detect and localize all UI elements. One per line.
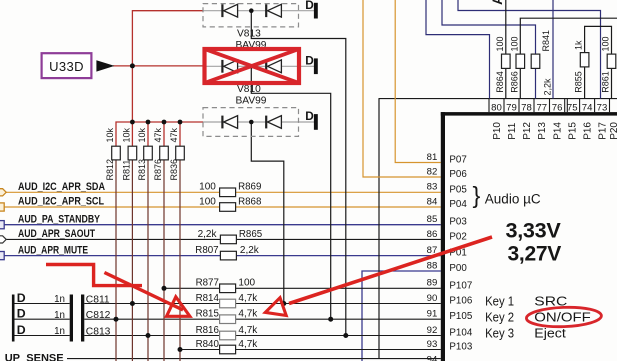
resistor R868 100 (series in SCL) <box>199 196 262 211</box>
svg-text:AUD_APR_MUTE: AUD_APR_MUTE <box>18 244 88 256</box>
resistor R877 100 (series row 89) <box>196 278 256 293</box>
svg-text:UP_SENSE: UP_SENSE <box>5 353 64 361</box>
svg-text:10k: 10k <box>121 127 131 142</box>
wire red U33D output <box>113 65 203 67</box>
resistor R855 1k (top, to pin 74) <box>574 40 589 93</box>
resistor R813 10k (vertical) <box>137 127 152 180</box>
svg-text:83: 83 <box>427 182 438 193</box>
ground/net rail D for capacitors <box>12 295 15 342</box>
svg-text:100: 100 <box>199 196 216 207</box>
node V810 tap/row91 <box>328 317 333 322</box>
svg-text:D: D <box>305 109 314 123</box>
svg-text:2,2k: 2,2k <box>542 78 552 96</box>
node U33D/red riser junction <box>130 63 135 68</box>
svg-text:R861: R861 <box>601 71 611 93</box>
wire row 90 P106 Key1 (from C811 to pin 90) <box>14 303 441 305</box>
red annotation arrowhead 2 (open, at R815) <box>265 298 286 316</box>
svg-text:1k: 1k <box>574 40 584 50</box>
wire pin 88 net (blue, corner down at x362 to bottom edge) <box>362 271 441 361</box>
svg-text:R868: R868 <box>238 196 262 207</box>
red annotation step arrow (left) <box>46 265 142 286</box>
resistor R841 2,2k (top, to pin 77) <box>531 30 552 96</box>
wire R866 top via y18.2 to right edge and bottom to pin 78 <box>520 18 617 98</box>
svg-text:V810: V810 <box>237 84 261 95</box>
resistor R807 2,2k (series in MUTE) <box>195 245 260 260</box>
svg-text:1n: 1n <box>54 310 65 321</box>
svg-text:Key 3: Key 3 <box>485 326 514 341</box>
svg-text:D: D <box>305 0 314 12</box>
resistor R840 4,7k (series row 93) <box>196 339 259 354</box>
red annotation arrow shaft 1 <box>104 273 183 311</box>
svg-text:P05: P05 <box>449 184 467 195</box>
port tag AUD_I2C_APR_SCL <box>0 203 4 211</box>
svg-text:93: 93 <box>427 339 438 350</box>
red annotation arrowhead 1 (open, at R815) <box>167 297 190 317</box>
svg-text:U33D: U33D <box>49 59 84 74</box>
node R813/row92 <box>146 333 151 338</box>
node V811 tap/row90 <box>281 301 286 306</box>
wire V810 center tap to row 91 (pin 91) <box>251 66 330 319</box>
wire long horizontal to pin 75 (y98.6 above pin row) <box>379 99 617 112</box>
wire row 93 P103 (from R836 tap to pin 93) <box>180 349 441 351</box>
port tag AUD_APR_MUTE <box>0 252 4 260</box>
svg-text:Key 1: Key 1 <box>485 294 514 309</box>
wire navy from top to pin 80 <box>426 0 490 99</box>
svg-text:3,27V: 3,27V <box>508 242 562 266</box>
svg-text:R865: R865 <box>239 229 263 240</box>
svg-text:R855: R855 <box>574 71 584 93</box>
svg-text:74: 74 <box>582 102 593 113</box>
svg-text:3,33V: 3,33V <box>506 218 562 242</box>
svg-text:81: 81 <box>427 152 438 163</box>
svg-text:90: 90 <box>427 293 438 304</box>
svg-text:47k: 47k <box>153 127 163 142</box>
node R876/row89 <box>162 286 167 291</box>
hierarchical port U33D <box>42 53 115 78</box>
svg-text:R813: R813 <box>137 159 147 181</box>
node bus/R813 <box>146 120 151 125</box>
red ellipse around ON/OFF <box>526 306 602 328</box>
node R836/row93 <box>178 347 183 352</box>
svg-text:100: 100 <box>601 36 611 51</box>
wire red stubs bus to resistor tops <box>132 122 180 146</box>
resistor R861 100 (top, to pin 72) <box>601 36 616 92</box>
resistor R816 4,7k (series row 92) <box>196 325 259 340</box>
svg-text:P10: P10 <box>492 122 503 140</box>
wire navy from top straight to pin 76 <box>552 0 554 99</box>
svg-text:94: 94 <box>427 355 438 361</box>
svg-text:R815: R815 <box>196 309 220 320</box>
svg-text:P06: P06 <box>449 169 467 180</box>
svg-text:R841: R841 <box>541 30 551 52</box>
svg-text:A: A <box>489 0 505 5</box>
wire AUD_I2C_APR_SDA (orange, to pin 83) <box>4 191 441 193</box>
svg-text:C811: C811 <box>86 295 110 306</box>
svg-text:77: 77 <box>536 102 547 113</box>
svg-text:86: 86 <box>427 229 438 240</box>
resistor R865 2,2k (series in SAOUT) <box>198 229 263 244</box>
svg-text:P03: P03 <box>449 217 467 228</box>
svg-text:P103: P103 <box>449 342 472 353</box>
wire row 94 UP_SENSE (bottom edge to pin 94) <box>67 358 441 360</box>
svg-text:R807: R807 <box>195 245 219 256</box>
svg-text:92: 92 <box>427 325 438 336</box>
svg-text:AUD_PA_STANDBY: AUD_PA_STANDBY <box>18 213 100 225</box>
wire brown R812 bottom to row 91 and beyond <box>115 160 117 361</box>
net stub D (right of V813) <box>305 0 318 19</box>
node bus/R836 <box>178 120 183 125</box>
svg-text:P12: P12 <box>522 122 533 140</box>
svg-text:76: 76 <box>552 102 563 113</box>
svg-text:AUD_I2C_APR_SCL: AUD_I2C_APR_SCL <box>18 196 104 208</box>
port tag AUD_PA_STANDBY <box>0 221 4 229</box>
svg-text:85: 85 <box>427 214 438 225</box>
node V811 center <box>249 120 254 125</box>
svg-text:D: D <box>17 323 26 337</box>
node V813 center <box>249 8 254 13</box>
svg-text:100: 100 <box>199 182 216 193</box>
wire row 89 P107 (from R876 tap to pin 89) <box>164 287 441 289</box>
diode pair V811 (BAV99) with dashed box <box>203 108 314 137</box>
svg-text:Key 2: Key 2 <box>485 309 514 324</box>
wire R855 top via y26.4 to R861 top, bottoms to pins 74 and 72 <box>585 26 612 98</box>
svg-text:4,7k: 4,7k <box>238 339 258 350</box>
svg-text:P106: P106 <box>449 296 472 307</box>
op-amp/microcontroller U Audio uC body edges <box>441 112 617 116</box>
svg-text:88: 88 <box>427 260 438 271</box>
resistor R814 4,7k (series row 90) <box>196 293 259 308</box>
svg-text:P14: P14 <box>553 122 564 140</box>
node R812/row91 <box>114 317 119 322</box>
wire brown R811 bottom to row 90 and beyond <box>131 160 133 361</box>
net stub D (right of V811) <box>305 109 318 130</box>
pin header cells 80-73 <box>489 99 610 113</box>
svg-text:4,7k: 4,7k <box>238 293 258 304</box>
svg-text:84: 84 <box>427 196 438 207</box>
svg-text:P104: P104 <box>449 328 472 339</box>
port tag AUD_APR_SAOUT <box>0 236 6 243</box>
resistor R869 100 (series in SDA) <box>199 182 262 197</box>
svg-text:89: 89 <box>427 278 438 289</box>
svg-text:10k: 10k <box>137 127 147 142</box>
wire row 92 P104 Key3 (from C813 to pin 92) <box>14 335 441 337</box>
svg-text:R877: R877 <box>196 278 220 289</box>
wire red riser x132.4 from V813 row to resistor bus <box>132 11 203 122</box>
resistor R876 47k (vertical) <box>153 127 168 180</box>
svg-text:P13: P13 <box>537 122 548 140</box>
svg-text:C813: C813 <box>86 327 111 338</box>
svg-text:P04: P04 <box>449 199 467 210</box>
wire red resistor bus y122 to V811 row <box>116 122 203 146</box>
svg-text:4,7k: 4,7k <box>238 309 258 320</box>
svg-text:P17: P17 <box>597 122 608 140</box>
capacitor C811 1n <box>17 291 110 342</box>
red cross-out box over V810 <box>205 49 300 83</box>
svg-text:D: D <box>305 53 314 67</box>
node V810 center <box>249 64 254 69</box>
node R811/row90 <box>130 301 135 306</box>
resistor R815 4,7k (series row 91) <box>196 309 259 324</box>
svg-text:100: 100 <box>509 36 519 51</box>
wire brown R876 bottom to row 89 and beyond <box>163 160 165 361</box>
svg-text:75: 75 <box>567 102 578 113</box>
svg-text:P15: P15 <box>568 122 579 140</box>
svg-text:R869: R869 <box>238 182 262 193</box>
wire AUD_I2C_APR_SCL (orange, to pin 84) <box>4 206 441 208</box>
wire orange riser to pin 82 <box>363 0 441 177</box>
wire AUD_APR_SAOUT (black, to pin 86) <box>4 238 441 240</box>
wire brown R836 bottom to row 93 and beyond <box>179 160 181 361</box>
svg-text:AUD_APR_SAOUT: AUD_APR_SAOUT <box>18 228 95 240</box>
svg-text:AUD_I2C_APR_SDA: AUD_I2C_APR_SDA <box>18 181 105 193</box>
net stub D (right of V810) <box>305 53 318 74</box>
wire V811 center tap to row 90 (pin 90) <box>251 122 283 304</box>
node V813 tap/row92 <box>343 333 348 338</box>
diode pair V810 (BAV99), crossed out <box>203 60 314 107</box>
svg-text:100: 100 <box>495 36 505 51</box>
svg-text:P07: P07 <box>449 155 466 166</box>
resistor R811 10k (vertical) <box>121 127 136 180</box>
svg-text:C812: C812 <box>86 310 111 321</box>
resistor R866 100 (top, to pin 78) <box>509 36 524 92</box>
svg-text:4,7k: 4,7k <box>238 325 258 336</box>
wire V813 center tap to row 92 (pin 92) <box>251 11 345 336</box>
svg-text:2,2k: 2,2k <box>240 245 260 256</box>
svg-text:78: 78 <box>521 102 532 113</box>
svg-text:R876: R876 <box>153 159 163 181</box>
resistor R812 10k (vertical) <box>105 127 120 180</box>
wire brown R813 bottom to row 92 and beyond <box>147 160 149 361</box>
svg-text:P02: P02 <box>449 231 466 242</box>
svg-text:100: 100 <box>238 278 255 289</box>
svg-text:2,2k: 2,2k <box>198 229 218 240</box>
svg-text:R812: R812 <box>105 159 115 181</box>
wire R841 bottom to pin 77 <box>535 68 537 98</box>
svg-text:R864: R864 <box>495 71 505 93</box>
red annotation arrow shaft 2 (from 3,33V text) <box>289 237 492 304</box>
wire navy from top via y10.5 to pin 73 <box>458 0 601 99</box>
diode pair V813 (BAV99) with dashed box <box>203 4 314 51</box>
wire navy from top via y25 to R841 top <box>442 0 536 54</box>
svg-text:P20: P20 <box>609 122 617 140</box>
svg-text:P105: P105 <box>449 311 472 322</box>
svg-text:Audio µC: Audio µC <box>485 192 541 207</box>
wire AUD_PA_STANDBY (blue, to pin 85) <box>4 224 441 226</box>
svg-text:R836: R836 <box>169 159 179 181</box>
svg-text:82: 82 <box>427 166 438 177</box>
svg-text:BAV99: BAV99 <box>236 95 267 106</box>
svg-text:R866: R866 <box>509 71 519 93</box>
wire UP_SENSE riser x379 to long pin-75 wire <box>378 99 380 359</box>
wire row 91 P105 Key2 (from C812 to pin 91) <box>14 318 441 320</box>
svg-text:R811: R811 <box>121 160 131 181</box>
svg-text:47k: 47k <box>169 127 179 142</box>
svg-text:R840: R840 <box>196 339 220 350</box>
svg-text:R814: R814 <box>196 293 220 304</box>
node bus/R811 <box>130 120 135 125</box>
svg-text:1n: 1n <box>54 326 65 337</box>
svg-text:D: D <box>17 307 26 321</box>
node bus/R876 <box>162 120 167 125</box>
svg-text:73: 73 <box>597 102 608 113</box>
port tag AUD_I2C_APR_SDA <box>0 189 6 196</box>
svg-text:91: 91 <box>427 309 438 320</box>
wire R864 top from top edge (net A) and bottom to pin 79 <box>505 0 507 99</box>
svg-text:}: } <box>473 182 481 208</box>
svg-text:10k: 10k <box>105 127 115 142</box>
wire AUD_APR_MUTE (blue, to pin 87) <box>4 255 441 257</box>
svg-text:P107: P107 <box>449 280 472 291</box>
svg-text:R816: R816 <box>196 325 220 336</box>
svg-text:P00: P00 <box>449 263 467 274</box>
resistor R864 100 (top, to pin 79) <box>495 36 510 92</box>
svg-text:V813: V813 <box>237 29 261 40</box>
svg-text:P16: P16 <box>583 122 594 140</box>
svg-text:P11: P11 <box>507 122 518 139</box>
wire orange riser to pin 81 <box>395 0 441 163</box>
svg-text:1n: 1n <box>54 294 65 305</box>
svg-text:80: 80 <box>491 102 502 113</box>
svg-text:79: 79 <box>506 102 517 113</box>
svg-text:D: D <box>17 291 26 305</box>
capacitor C813 1n <box>17 323 111 338</box>
capacitor C812 1n <box>17 307 111 322</box>
resistor R836 47k (vertical) <box>169 127 184 180</box>
svg-text:ON/OFF: ON/OFF <box>534 309 591 324</box>
